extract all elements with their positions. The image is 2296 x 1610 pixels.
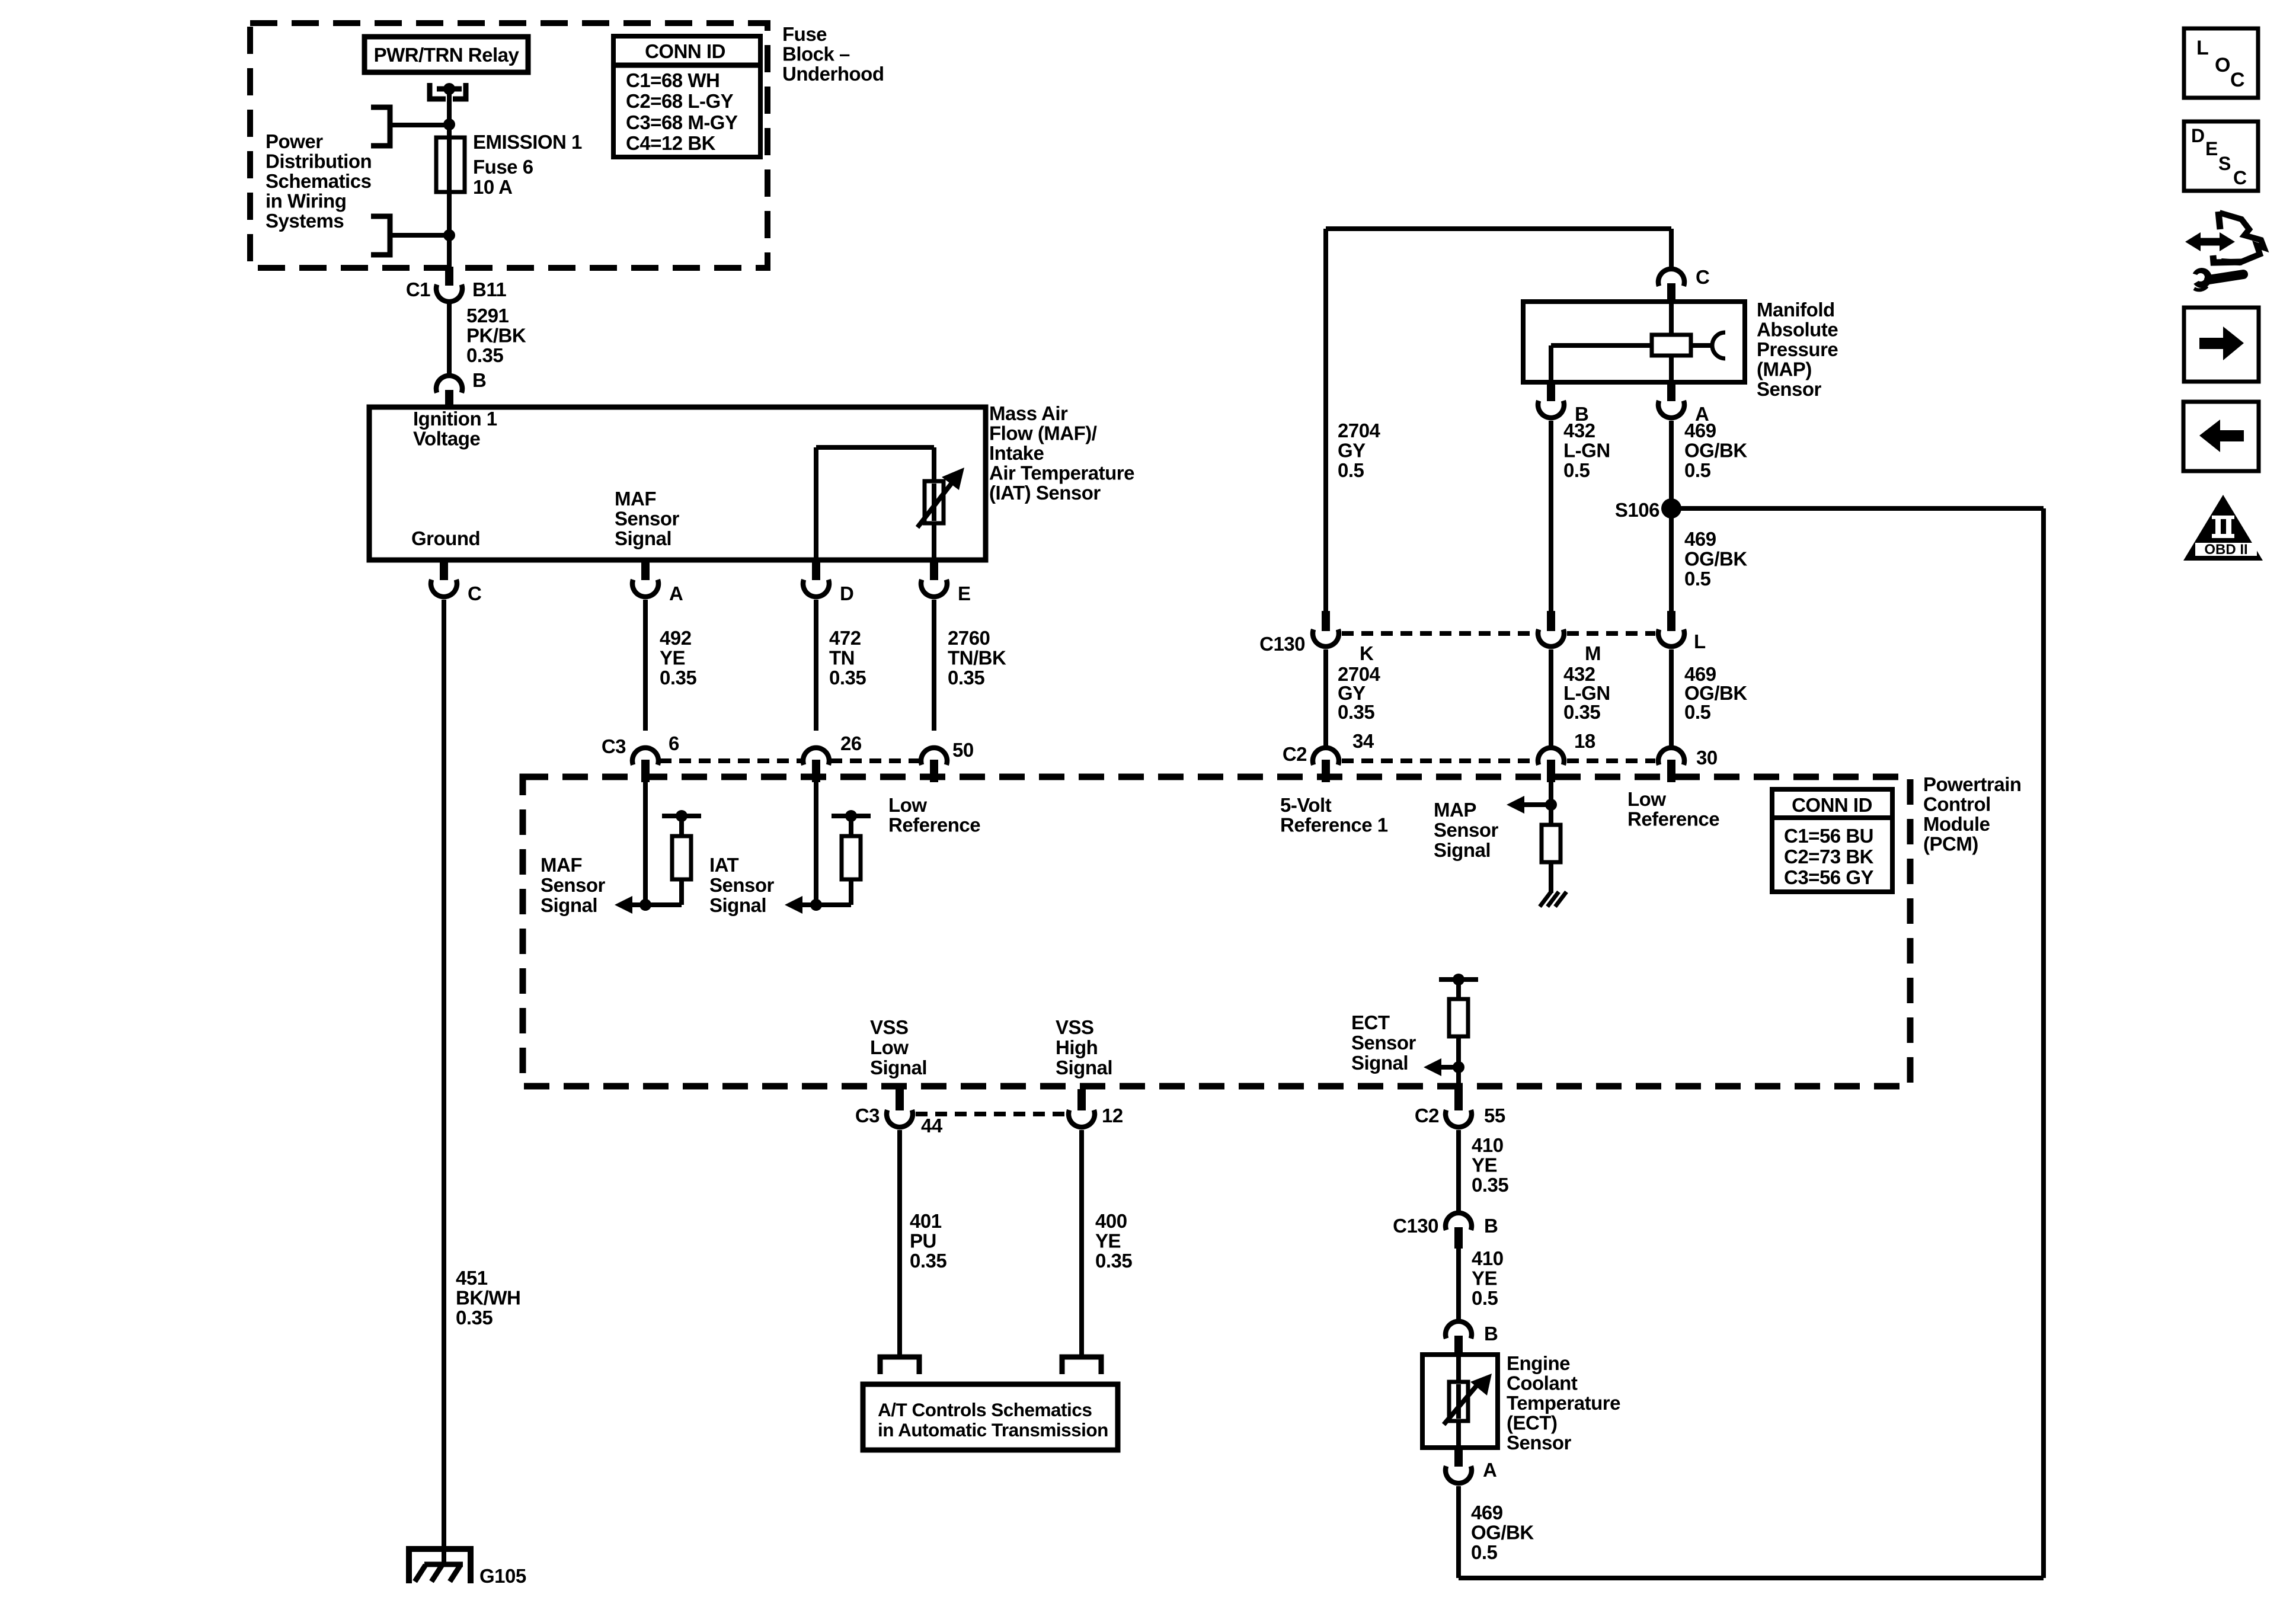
text 469 OG/BK 0.5 (col L) <box>1684 663 1747 723</box>
wire end bracket 400 <box>1062 1357 1101 1374</box>
connector pin 6 (male) <box>641 760 650 782</box>
connector pin B (MAP male) <box>1547 382 1555 401</box>
wire 410 YE 0.35 seg <box>1456 1130 1461 1213</box>
text C (MAP) <box>1696 266 1709 288</box>
wire IAT signal to resistor <box>816 836 851 905</box>
text pin number 12 <box>1102 1105 1123 1126</box>
connector pin C (male) <box>440 561 448 580</box>
svg-text:C3=68 M-GY: C3=68 M-GY <box>626 111 738 133</box>
connector C3 cup pin 12 <box>1069 1110 1095 1127</box>
MAP pressure port arc <box>1712 332 1725 359</box>
text pin number 26 <box>840 732 862 754</box>
text MAF Sensor Signal (PCM) <box>541 854 606 916</box>
svg-text:OG/BK: OG/BK <box>1684 440 1747 462</box>
wire internal D to IAT <box>816 447 934 560</box>
text 469 OG/BK 0.5 (upper) <box>1684 420 1747 481</box>
connector C130 cup L <box>1658 629 1684 646</box>
wire 410 YE 0.5 seg <box>1456 1249 1461 1321</box>
connector A cup (ECT) <box>1446 1466 1472 1483</box>
svg-text:C1=56 BU: C1=56 BU <box>1784 825 1873 847</box>
connector C3 dome pin 6 <box>632 748 658 765</box>
connector pin 34 (male) <box>1322 760 1330 782</box>
svg-text:0.35: 0.35 <box>466 344 503 366</box>
connector pin 18 (male) <box>1547 760 1555 782</box>
svg-text:469: 469 <box>1684 528 1716 550</box>
resistor ECT pull-up <box>1449 999 1468 1036</box>
svg-text:55: 55 <box>1484 1105 1505 1126</box>
text G105 <box>479 1565 526 1587</box>
svg-text:BK/WH: BK/WH <box>456 1287 520 1309</box>
text S106 <box>1615 499 1659 521</box>
text pin number 6 <box>669 732 679 754</box>
wire 432 L-GN lower <box>1549 649 1553 748</box>
text PWR/TRN Relay <box>374 44 520 66</box>
wire 492 YE <box>643 600 648 731</box>
wire relay to fuse <box>447 89 452 137</box>
svg-text:(MAP): (MAP) <box>1757 359 1812 380</box>
svg-text:Distribution: Distribution <box>266 151 372 172</box>
text pin number 44 <box>921 1115 943 1137</box>
svg-text:2760: 2760 <box>948 627 990 649</box>
svg-text:OG/BK: OG/BK <box>1684 548 1747 570</box>
svg-text:0.5: 0.5 <box>1471 1541 1498 1563</box>
PCM internal ground symbol <box>1540 892 1566 907</box>
wire 401 PU <box>897 1130 902 1358</box>
wire MAP resistor to ground <box>1549 862 1553 893</box>
connector C2 dome pin 18 <box>1538 748 1564 765</box>
text C2 (PCM connector) <box>1283 743 1307 765</box>
svg-text:TN: TN <box>829 647 855 669</box>
svg-text:E: E <box>958 582 971 604</box>
wire bottom run to ECT <box>1459 1576 2044 1580</box>
svg-text:C2=73 BK: C2=73 BK <box>1784 846 1874 868</box>
text ECT Sensor Signal (PCM) <box>1351 1012 1416 1074</box>
svg-text:Ground: Ground <box>411 527 480 549</box>
text Ground <box>411 527 480 549</box>
A/T controls reference box <box>863 1384 1118 1450</box>
resistor MAF pull-up <box>672 836 691 879</box>
svg-text:C3=56 GY: C3=56 GY <box>1784 866 1873 888</box>
svg-text:ECT: ECT <box>1351 1012 1390 1033</box>
connector C cup <box>431 580 457 597</box>
text 432 L-GN 0.35 <box>1563 663 1610 723</box>
internal stub bar MAF <box>662 816 701 836</box>
svg-text:410: 410 <box>1472 1247 1504 1269</box>
svg-text:Underhood: Underhood <box>782 63 884 85</box>
PCM dashed box <box>523 777 1910 1086</box>
MAP internal wires <box>1551 302 1713 382</box>
svg-text:D: D <box>2191 125 2205 146</box>
ECT sensor box <box>1422 1355 1498 1448</box>
svg-text:(IAT) Sensor: (IAT) Sensor <box>989 482 1101 504</box>
svg-text:Reference: Reference <box>888 814 980 836</box>
wire 5-volt reference top run <box>1326 229 1671 612</box>
text A (ECT) <box>1483 1459 1496 1481</box>
junction dot upper branch <box>443 119 455 130</box>
svg-text:YE: YE <box>660 647 685 669</box>
connector pin 12 (male) <box>1077 1089 1086 1110</box>
icon right-arrow <box>2199 327 2244 360</box>
wire ECT resistor down <box>1456 1036 1461 1093</box>
svg-text:Signal: Signal <box>870 1057 927 1078</box>
connector C3 cup pin 44 <box>887 1110 913 1127</box>
wire 472 TN <box>814 600 818 731</box>
svg-text:YE: YE <box>1472 1267 1497 1289</box>
svg-text:C3: C3 <box>855 1105 880 1126</box>
svg-text:Sensor: Sensor <box>1434 819 1499 841</box>
svg-text:CONN ID: CONN ID <box>1792 794 1872 816</box>
svg-text:C: C <box>2230 69 2244 91</box>
svg-text:C130: C130 <box>1259 633 1305 655</box>
connector C2 dome pin 30 <box>1658 748 1684 765</box>
connector C130 cup M <box>1538 629 1564 646</box>
svg-text:E: E <box>2205 138 2218 159</box>
icon LOC letters <box>2196 37 2244 91</box>
svg-text:B11: B11 <box>472 279 506 300</box>
fuse block - underhood dashed box <box>250 23 768 268</box>
arrow IAT sensor signal <box>785 896 816 914</box>
svg-text:B: B <box>472 369 486 391</box>
text Powertrain Control Module (PCM) <box>1923 773 2022 855</box>
text 472 TN 0.35 <box>829 627 866 689</box>
IAT thermistor arrow <box>917 468 964 527</box>
splice S106 dot <box>1661 498 1681 518</box>
connector B dome <box>436 376 462 393</box>
svg-text:0.5: 0.5 <box>1338 459 1364 481</box>
svg-text:YE: YE <box>1095 1230 1121 1252</box>
svg-text:A: A <box>669 582 683 604</box>
text 401 PU 0.35 <box>910 1210 946 1272</box>
svg-text:Block –: Block – <box>782 43 850 65</box>
text 410 YE 0.5 <box>1472 1247 1504 1309</box>
connector C3 face dashed line <box>660 758 920 763</box>
svg-text:Signal: Signal <box>1434 839 1491 861</box>
arrow MAP sensor signal <box>1507 796 1551 814</box>
internal stub bar IAT <box>832 816 871 836</box>
text pin letter E <box>958 582 971 604</box>
svg-text:0.35: 0.35 <box>1472 1174 1508 1196</box>
svg-text:Signal: Signal <box>709 894 766 916</box>
text L (C130) <box>1694 630 1706 652</box>
svg-text:Sensor: Sensor <box>709 874 775 896</box>
arrow MAF sensor signal <box>615 896 645 914</box>
svg-text:Sensor: Sensor <box>1507 1432 1572 1454</box>
fuse F6 EMISSION 1 body <box>436 137 465 192</box>
wire 451 BK/WH (ground run) <box>442 600 446 1566</box>
svg-text:Signal: Signal <box>1056 1057 1112 1078</box>
text EMISSION 1 Fuse 6 10 A <box>473 131 582 198</box>
connector B dome (ECT box) <box>1446 1321 1472 1339</box>
svg-text:K: K <box>1360 642 1374 664</box>
icon right-arrow box <box>2184 308 2259 382</box>
icon DESC box <box>2184 121 2258 191</box>
svg-text:410: 410 <box>1472 1134 1504 1156</box>
text MAF Sensor Signal (in box) <box>615 488 680 549</box>
svg-text:Fuse: Fuse <box>782 23 827 45</box>
icon left-arrow <box>2199 420 2244 452</box>
svg-text:0.35: 0.35 <box>1338 701 1374 723</box>
connector pin 30 (male) <box>1667 760 1675 782</box>
text MAP Sensor Signal (PCM) <box>1434 799 1499 861</box>
svg-text:Powertrain: Powertrain <box>1923 773 2022 795</box>
svg-text:MAF: MAF <box>541 854 582 876</box>
svg-text:Schematics: Schematics <box>266 170 371 192</box>
svg-text:0.5: 0.5 <box>1684 701 1711 723</box>
svg-text:C4=12 BK: C4=12 BK <box>626 132 716 154</box>
connector pin A (MAP male) <box>1667 382 1675 401</box>
svg-text:TN/BK: TN/BK <box>948 647 1006 669</box>
svg-text:M: M <box>1585 642 1601 664</box>
svg-text:G105: G105 <box>479 1565 526 1587</box>
relay K PWR/TRN label box <box>364 37 528 72</box>
text pin number 55 <box>1484 1105 1505 1126</box>
svg-text:50: 50 <box>952 739 974 761</box>
svg-text:10 A: 10 A <box>473 176 512 198</box>
svg-text:0.35: 0.35 <box>829 667 866 689</box>
svg-text:469: 469 <box>1471 1502 1503 1523</box>
icon DESC letters <box>2191 125 2247 188</box>
svg-text:Power: Power <box>266 130 323 152</box>
svg-text:Flow (MAF)/: Flow (MAF)/ <box>989 422 1097 444</box>
text VSS Low Signal <box>870 1016 927 1078</box>
svg-text:PWR/TRN Relay: PWR/TRN Relay <box>374 44 520 66</box>
svg-text:Fuse 6: Fuse 6 <box>473 156 533 178</box>
connector C dome (MAP) <box>1658 269 1684 286</box>
svg-text:Sensor: Sensor <box>615 508 680 530</box>
svg-text:(PCM): (PCM) <box>1923 833 1978 855</box>
junction dot MAP signal <box>1545 799 1557 811</box>
connector pin B C130 (male) <box>1454 1227 1463 1249</box>
svg-text:Reference: Reference <box>1627 808 1719 830</box>
svg-text:0.5: 0.5 <box>1684 568 1711 590</box>
svg-text:B: B <box>1484 1323 1498 1345</box>
text B (MAP) <box>1575 403 1588 425</box>
resistor MAP pull-down <box>1542 825 1560 862</box>
wire pin6 into PCM <box>643 782 648 905</box>
svg-text:12: 12 <box>1102 1105 1123 1126</box>
text CONN ID rows (fuse block) <box>626 69 738 154</box>
internal stub bar ECT <box>1439 977 1478 982</box>
text CONN ID rows (PCM) <box>1784 825 1874 888</box>
svg-text:0.35: 0.35 <box>660 667 696 689</box>
svg-text:A: A <box>1483 1459 1496 1481</box>
ECT thermistor arrow <box>1444 1374 1492 1425</box>
svg-text:Absolute: Absolute <box>1757 319 1838 341</box>
icon wrench <box>2186 268 2243 290</box>
text B (ECT box) <box>1484 1323 1498 1345</box>
svg-text:2704: 2704 <box>1338 420 1381 441</box>
MAP transducer element <box>1652 335 1691 356</box>
svg-text:EMISSION 1: EMISSION 1 <box>473 131 582 153</box>
svg-text:Coolant: Coolant <box>1507 1372 1578 1394</box>
text pin letter C <box>468 582 481 604</box>
text 2760 TN/BK 0.35 <box>948 627 1006 689</box>
text 469 OG/BK 0.5 (bottom) <box>1471 1502 1534 1563</box>
svg-text:GY: GY <box>1338 440 1366 462</box>
ECT thermistor (variable resistor) <box>1449 1382 1468 1421</box>
connector C3 dome pin 26 <box>803 748 829 765</box>
wire internal E below IAT <box>932 513 936 560</box>
connector pin 50 (male) <box>930 760 938 782</box>
wire ECT A down <box>1456 1486 1461 1578</box>
text VSS High Signal <box>1056 1016 1112 1078</box>
connector pin 44 (male) <box>896 1089 904 1110</box>
svg-text:OBD II: OBD II <box>2204 542 2247 558</box>
wire MAP pin C drop <box>1669 229 1674 270</box>
svg-text:PU: PU <box>910 1230 936 1252</box>
text Low Reference (C2 side) <box>1627 788 1719 830</box>
svg-text:472: 472 <box>829 627 861 649</box>
connector pin K C130 (male) <box>1322 611 1330 631</box>
svg-text:Sensor: Sensor <box>1757 378 1822 400</box>
MAF/IAT sensor box <box>369 407 986 560</box>
connector pin C (male) <box>1667 283 1675 302</box>
svg-text:VSS: VSS <box>870 1016 909 1038</box>
junction dot relay output <box>443 83 455 95</box>
junction dot lower branch <box>443 229 455 241</box>
svg-text:Manifold: Manifold <box>1757 299 1835 321</box>
wire 469 OG/BK <box>1669 421 1674 612</box>
svg-text:5-Volt: 5-Volt <box>1280 794 1332 816</box>
connector C3 dome pin 50 <box>921 748 947 765</box>
text 410 YE 0.35 <box>1472 1134 1508 1196</box>
svg-text:Systems: Systems <box>266 210 344 232</box>
wire right side down run <box>2041 508 2046 1578</box>
svg-text:0.35: 0.35 <box>1095 1250 1132 1272</box>
svg-text:in Wiring: in Wiring <box>266 190 346 212</box>
svg-text:492: 492 <box>660 627 692 649</box>
wire pin18 into PCM <box>1549 782 1553 825</box>
wire 2760 TN/BK <box>932 600 936 731</box>
svg-text:C2=68 L-GY: C2=68 L-GY <box>626 90 734 112</box>
icon LOC box <box>2184 28 2258 98</box>
text C2 (ECT connector) <box>1415 1105 1439 1126</box>
svg-text:PK/BK: PK/BK <box>466 325 526 347</box>
svg-text:0.35: 0.35 <box>910 1250 946 1272</box>
text CONN ID title (fuse block) <box>645 40 725 62</box>
svg-text:(ECT): (ECT) <box>1507 1412 1557 1434</box>
text B (ignition feed) <box>472 369 486 391</box>
svg-text:IAT: IAT <box>709 854 739 876</box>
svg-text:30: 30 <box>1696 747 1718 769</box>
resistor IAT pull-up <box>842 836 861 879</box>
text C130 (ECT) <box>1393 1215 1438 1237</box>
CONN ID table (fuse block) <box>613 36 760 157</box>
connector pin E (male) <box>930 561 938 580</box>
text 469 OG/BK 0.5 (below S106) <box>1684 528 1747 590</box>
text 432 L-GN 0.5 <box>1563 420 1610 481</box>
connector pin B (male) <box>445 390 453 408</box>
wire 400 YE <box>1079 1130 1084 1358</box>
text CONN ID title (PCM) <box>1792 794 1872 816</box>
text Mass Air Flow (MAF)/ Intake Air Temperature (IAT) Sensor <box>989 402 1134 504</box>
wire 469 OG/BK lower <box>1669 649 1674 748</box>
icon OBD II triangle <box>2183 495 2263 561</box>
svg-text:C2: C2 <box>1283 743 1307 765</box>
wire 432 L-GN <box>1549 421 1553 612</box>
connector C3 (VSS) face dashed line <box>916 1112 1066 1116</box>
connector A cup <box>632 580 658 597</box>
svg-text:0.35: 0.35 <box>948 667 984 689</box>
svg-text:L: L <box>1694 630 1706 652</box>
text C3 (VSS connector) <box>855 1105 880 1126</box>
IAT thermistor (variable resistor) <box>925 481 944 523</box>
svg-text:Reference 1: Reference 1 <box>1280 814 1388 836</box>
connector pin A ECT (male) <box>1454 1448 1463 1467</box>
connector C2 dome pin 34 <box>1313 748 1339 765</box>
relay contact terminals <box>430 83 466 99</box>
connector C2 cup pin 55 <box>1446 1110 1472 1127</box>
svg-text:0.5: 0.5 <box>1563 459 1590 481</box>
junction dot IAT signal <box>810 899 822 911</box>
text 451 BK/WH 0.35 <box>456 1267 520 1329</box>
text pin number 18 <box>1574 730 1595 752</box>
connector pin D (male) <box>812 561 820 580</box>
text pin letter A <box>669 582 683 604</box>
svg-text:in Automatic Transmission: in Automatic Transmission <box>878 1419 1108 1441</box>
svg-text:C130: C130 <box>1393 1215 1438 1237</box>
svg-text:Signal: Signal <box>1351 1052 1408 1074</box>
svg-text:Intake: Intake <box>989 442 1044 464</box>
text 5-Volt Reference 1 <box>1280 794 1388 836</box>
text C1 B11 <box>406 279 507 300</box>
svg-text:34: 34 <box>1352 730 1374 752</box>
svg-text:C1=68 WH: C1=68 WH <box>626 69 720 91</box>
svg-text:A/T Controls Schematics: A/T Controls Schematics <box>878 1399 1092 1420</box>
text A/T Controls Schematics in Automatic Transmission <box>878 1399 1108 1441</box>
svg-text:Low: Low <box>870 1036 909 1058</box>
svg-text:S106: S106 <box>1615 499 1659 521</box>
junction dot MAF signal <box>639 899 651 911</box>
text Manifold Absolute Pressure (MAP) Sensor <box>1757 299 1838 400</box>
icon vehicle double arrow <box>2185 232 2235 251</box>
junction dot MAF stub <box>676 810 687 822</box>
svg-text:C: C <box>1696 266 1709 288</box>
svg-text:400: 400 <box>1095 1210 1127 1232</box>
text Ignition 1 Voltage <box>413 408 497 450</box>
connector pin B ECT (male) <box>1454 1336 1463 1356</box>
text B (C130 ECT) <box>1484 1215 1498 1237</box>
svg-text:Temperature: Temperature <box>1507 1392 1620 1414</box>
svg-text:Signal: Signal <box>615 527 671 549</box>
svg-text:6: 6 <box>669 732 679 754</box>
svg-text:L: L <box>2196 37 2208 59</box>
wire end bracket 401 <box>880 1357 919 1374</box>
svg-text:26: 26 <box>840 732 862 754</box>
text M (C130) <box>1585 642 1601 664</box>
text 2704 GY 0.5 <box>1338 420 1381 481</box>
svg-text:YE: YE <box>1472 1154 1497 1176</box>
svg-text:18: 18 <box>1574 730 1595 752</box>
svg-text:Air Temperature: Air Temperature <box>989 462 1134 484</box>
text 5291 PK/BK 0.35 <box>466 305 526 366</box>
text pin number 50 <box>952 739 974 761</box>
connector C130 dome B (ECT) <box>1446 1213 1472 1230</box>
wire pin26 into PCM <box>814 782 818 905</box>
svg-text:MAP: MAP <box>1434 799 1476 821</box>
text Fuse Block - Underhood <box>782 23 884 85</box>
svg-text:Voltage: Voltage <box>413 428 480 450</box>
text Low Reference (C3 side) <box>888 794 980 836</box>
svg-text:C: C <box>2233 167 2247 188</box>
svg-text:C3: C3 <box>602 735 626 757</box>
svg-text:44: 44 <box>921 1115 943 1137</box>
connector pin C1 (male) <box>445 267 453 286</box>
text Power Distribution Schematics in Wiring Systems <box>266 130 372 232</box>
text C3 (PCM connector) <box>602 735 626 757</box>
svg-text:Ignition 1: Ignition 1 <box>413 408 497 430</box>
wire ECT stub to resistor <box>1456 980 1461 999</box>
